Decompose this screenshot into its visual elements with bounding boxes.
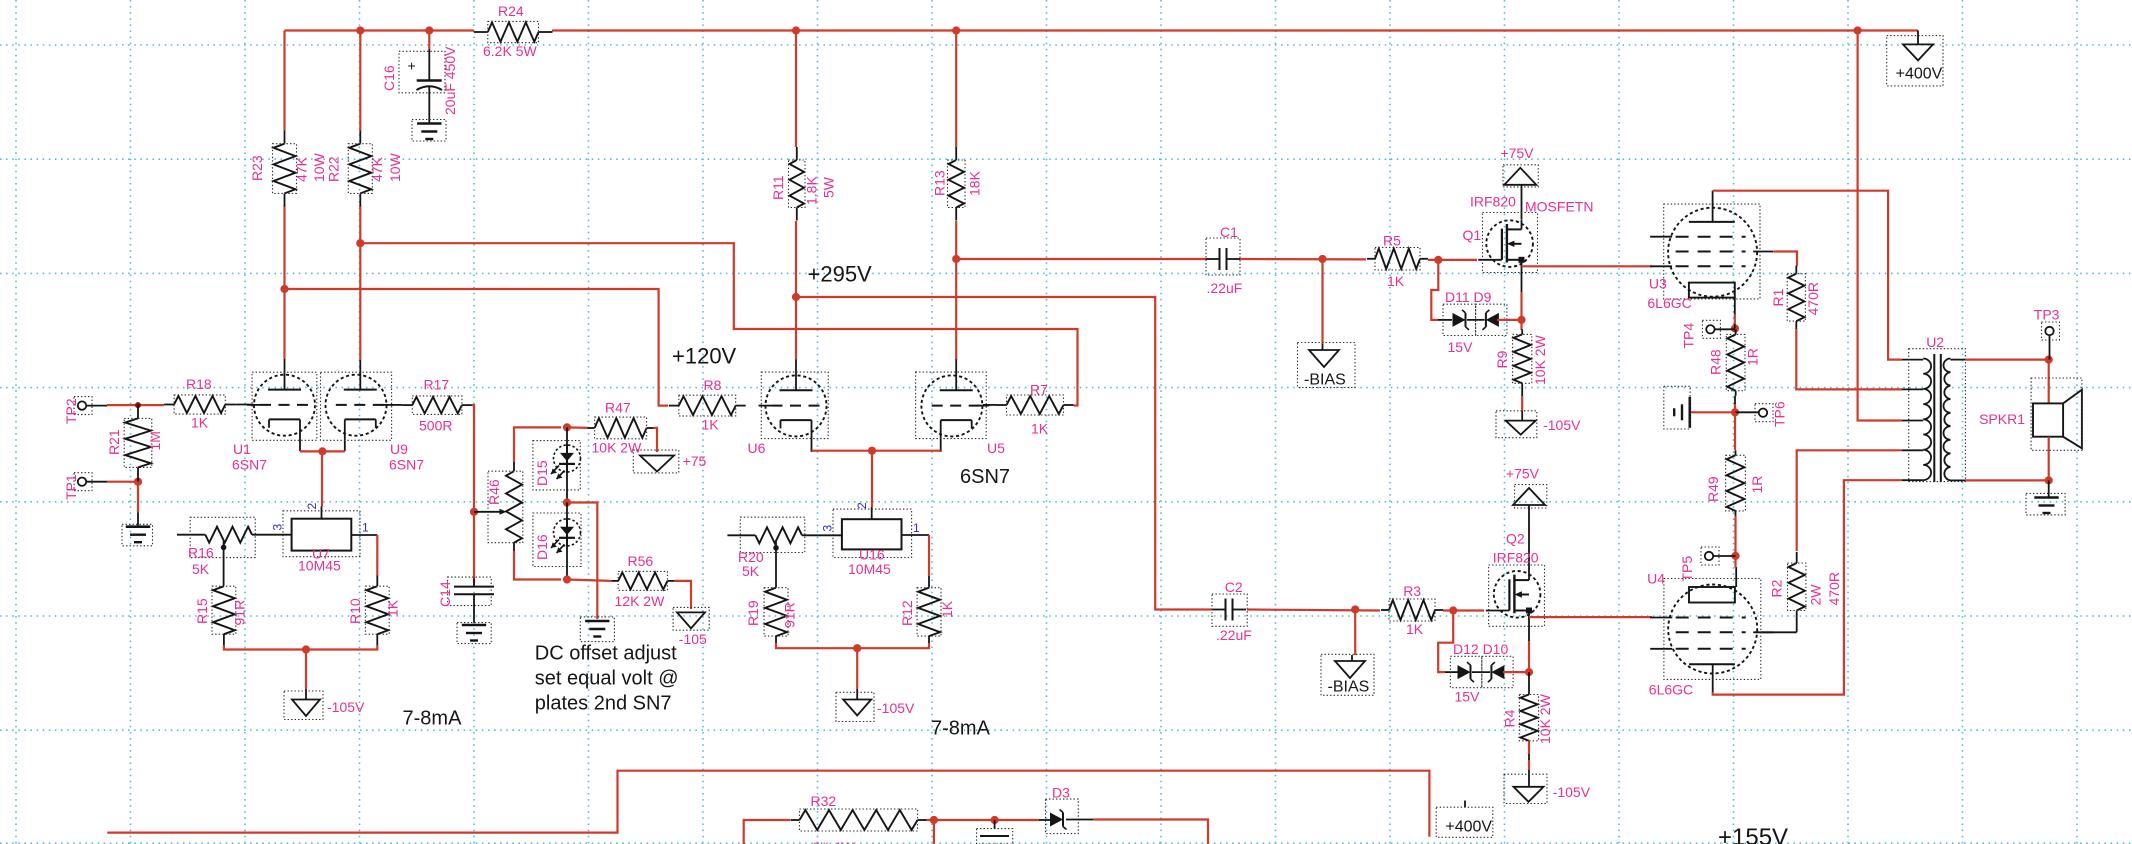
capacitor C16 (electrolytic) bbox=[428, 31, 430, 50]
svg-text:2W: 2W bbox=[1808, 584, 1824, 606]
junction D15/D16 midpoint bbox=[566, 472, 568, 503]
svg-text:TP4: TP4 bbox=[1681, 323, 1697, 349]
junction TP2/R21 bbox=[135, 402, 141, 408]
junction cathodes bbox=[318, 447, 326, 455]
capacitor C2 bbox=[1212, 609, 1226, 611]
resistor R17 bbox=[402, 404, 412, 406]
resistor R7 bbox=[997, 404, 1007, 406]
svg-text:-105: -105 bbox=[679, 631, 707, 647]
wire D10 to source node bbox=[1503, 671, 1529, 673]
resistor R19 bbox=[775, 587, 777, 589]
wire midpoint to ground bbox=[567, 503, 597, 620]
svg-text:R1: R1 bbox=[1770, 288, 1786, 306]
svg-text:R19: R19 bbox=[745, 600, 761, 626]
svg-text:R56: R56 bbox=[628, 553, 654, 569]
svg-text:MOSFETN: MOSFETN bbox=[1525, 199, 1593, 215]
power symbol -105V (below R9) bbox=[1506, 421, 1536, 435]
svg-text:U6: U6 bbox=[748, 440, 766, 456]
resistor R16 (with tap) bbox=[177, 534, 205, 536]
svg-text:.22uF: .22uF bbox=[1216, 627, 1252, 643]
resistor R3 bbox=[1381, 609, 1389, 611]
svg-text:R11: R11 bbox=[770, 175, 786, 200]
junction R16 tap bbox=[221, 545, 227, 551]
resistor R15 bbox=[223, 585, 225, 587]
resistor R13 bbox=[955, 147, 957, 160]
power symbol -105V (left) bbox=[292, 700, 320, 717]
svg-text:5W: 5W bbox=[821, 176, 837, 198]
svg-text:R2: R2 bbox=[1769, 579, 1785, 597]
power symbol +75 bbox=[640, 456, 674, 472]
resistor R12 bbox=[928, 587, 930, 589]
ground below R21 bbox=[126, 525, 150, 528]
svg-text:R47: R47 bbox=[605, 400, 631, 416]
capacitor at bottom (cut) bbox=[977, 829, 1013, 844]
wire node to R47 bbox=[567, 426, 588, 429]
svg-text:-105V: -105V bbox=[327, 699, 365, 715]
resistor R4 bbox=[1528, 694, 1530, 696]
wire R2 to U4 screen bbox=[1796, 622, 1798, 633]
terminal TP4 bbox=[1706, 325, 1714, 333]
transistor Q2 IRF820 mosfet bbox=[1494, 571, 1541, 618]
wire R3 to Q2 gate bbox=[1443, 609, 1484, 611]
svg-text:1M: 1M bbox=[147, 431, 163, 450]
svg-text:1.8K: 1.8K bbox=[804, 176, 820, 205]
svg-text:47K: 47K bbox=[294, 156, 310, 182]
junction cap tap bbox=[991, 816, 999, 824]
wire R16 tap to R15 bbox=[223, 541, 225, 586]
junction cathodes to U16 bbox=[868, 447, 876, 455]
svg-text:18K: 18K bbox=[967, 170, 983, 196]
svg-text:TP3: TP3 bbox=[2034, 307, 2060, 323]
wire gate zener drop bbox=[1431, 260, 1438, 320]
wire U3 plate to transformer bbox=[1713, 191, 1902, 360]
svg-text:R16: R16 bbox=[188, 545, 214, 561]
junction R11 top bbox=[792, 26, 800, 34]
svg-text:15V: 15V bbox=[1455, 689, 1481, 705]
svg-text:470R: 470R bbox=[1805, 282, 1821, 315]
svg-text:C1: C1 bbox=[1220, 224, 1238, 240]
svg-text:+120V: +120V bbox=[672, 344, 737, 369]
svg-text:6SN7: 6SN7 bbox=[232, 457, 267, 473]
wire R23 column / U1 plate bbox=[283, 31, 285, 132]
svg-text:R3: R3 bbox=[1403, 583, 1421, 599]
svg-text:R22: R22 bbox=[326, 156, 342, 182]
wire D3 to lower right bbox=[1093, 820, 1208, 844]
wire bus corner into +400V symbol bbox=[1917, 31, 1919, 45]
wire U5 grid to R7 bbox=[983, 404, 997, 406]
ground below C14 bbox=[462, 624, 486, 627]
wire Q2 source to U4 grid bbox=[1529, 616, 1652, 618]
svg-text:U2: U2 bbox=[1926, 334, 1944, 350]
svg-text:TP5: TP5 bbox=[1679, 556, 1695, 582]
junction U9 plate to U5 grid feed bbox=[356, 239, 364, 247]
junction C16 top bbox=[425, 26, 433, 34]
svg-text:91R: 91R bbox=[781, 602, 797, 628]
junction gate/zener bbox=[1434, 256, 1442, 264]
svg-text:5K: 5K bbox=[192, 561, 210, 577]
svg-text:12K 2W: 12K 2W bbox=[615, 593, 666, 609]
svg-text:+75: +75 bbox=[683, 453, 707, 469]
junction after R32 bbox=[930, 816, 938, 824]
svg-text:470R: 470R bbox=[1826, 572, 1842, 605]
wire U1/U9 cathodes join bbox=[300, 450, 345, 452]
svg-text:1: 1 bbox=[362, 521, 369, 535]
svg-text:TP1: TP1 bbox=[63, 474, 79, 500]
svg-text:D12 D10: D12 D10 bbox=[1453, 641, 1508, 657]
svg-text:-BIAS: -BIAS bbox=[1304, 372, 1346, 389]
wire R46 wiper bbox=[474, 511, 504, 513]
svg-text:47K: 47K bbox=[369, 156, 385, 182]
junction R20 tap bbox=[773, 545, 779, 551]
wire R18 to U1 grid bbox=[235, 404, 253, 406]
resistor R32 bbox=[791, 819, 800, 821]
junction Q1 source bbox=[1517, 316, 1525, 324]
wire bottom-left long run bbox=[107, 771, 1429, 837]
junction TP5 bbox=[1731, 552, 1739, 560]
svg-text:1K: 1K bbox=[1406, 621, 1424, 637]
junction D16 bottom node bbox=[566, 546, 568, 580]
svg-text:+: + bbox=[408, 58, 416, 74]
resistor R5 bbox=[1367, 258, 1375, 260]
wire R47 right to +75 symbol bbox=[654, 428, 657, 452]
svg-text:6L6GC: 6L6GC bbox=[1649, 682, 1693, 698]
LED D16 bbox=[566, 503, 568, 520]
wire node to R56 bbox=[567, 580, 611, 581]
svg-text:1R: 1R bbox=[1745, 348, 1761, 366]
power symbol -BIAS (lower) bbox=[1351, 655, 1353, 661]
resistor R18 bbox=[164, 404, 174, 406]
svg-text:R8: R8 bbox=[704, 377, 722, 393]
svg-text:1K: 1K bbox=[1031, 421, 1049, 437]
svg-text:+295V: +295V bbox=[808, 261, 873, 286]
svg-text:R23: R23 bbox=[249, 155, 265, 181]
wire R46 top to R47 node bbox=[513, 462, 515, 471]
svg-text:1K: 1K bbox=[939, 600, 955, 618]
resistor R56 bbox=[611, 580, 618, 582]
resistor R49 bbox=[1734, 412, 1736, 450]
wire R9 to -105V bbox=[1521, 388, 1523, 396]
wire R5 to Q1 gate bbox=[1428, 259, 1477, 261]
wire TP2 to R18 bbox=[107, 404, 164, 406]
junction TP1/R21 bbox=[134, 478, 142, 486]
svg-text:R49: R49 bbox=[1705, 476, 1721, 502]
wire secondary top to TP3/speaker bbox=[1965, 359, 2048, 361]
svg-text:D11 D9: D11 D9 bbox=[1445, 289, 1492, 305]
wire U6/U5 cathodes join bbox=[812, 450, 941, 452]
svg-text:-105V: -105V bbox=[1543, 417, 1581, 433]
resistor R10 bbox=[376, 585, 378, 587]
wire R46 bottom to D16 node bbox=[513, 543, 515, 551]
capacitor C14 bbox=[473, 578, 475, 586]
zener D12 bbox=[1445, 671, 1458, 673]
svg-text:2: 2 bbox=[305, 503, 319, 510]
svg-text:U3: U3 bbox=[1649, 276, 1667, 292]
wire R4 to -105V bbox=[1528, 741, 1530, 754]
wire R1 to transformer tap bbox=[1796, 329, 1902, 389]
svg-text:3: 3 bbox=[821, 525, 835, 532]
svg-text:C2: C2 bbox=[1225, 579, 1243, 595]
svg-text:IRF820: IRF820 bbox=[1493, 550, 1539, 566]
svg-text:C16: C16 bbox=[381, 65, 397, 91]
wire TP1 to R21 bottom bbox=[107, 481, 138, 483]
power symbol +75V (above Q1) bbox=[1504, 168, 1536, 185]
ground at C16 bbox=[417, 122, 441, 125]
tube U1 6SN7 (triode) bbox=[254, 375, 315, 436]
junction cathode/TP4 bbox=[1731, 324, 1739, 332]
zener D3 bbox=[1039, 819, 1050, 821]
svg-text:R12: R12 bbox=[899, 600, 915, 626]
svg-text:91R: 91R bbox=[232, 600, 248, 626]
zener D10 bbox=[1472, 671, 1490, 673]
ground at R48 (rotated earth) bbox=[1689, 397, 1692, 428]
junction -BIAS tap upper bbox=[1318, 255, 1326, 263]
wire gate zener drop Q2 bbox=[1438, 611, 1453, 673]
svg-text:TP2: TP2 bbox=[63, 398, 79, 424]
svg-text:10M45: 10M45 bbox=[848, 561, 891, 577]
svg-text:IRF820: IRF820 bbox=[1470, 194, 1516, 210]
junction R47/D15 node bbox=[563, 423, 571, 431]
svg-text:10K 2W: 10K 2W bbox=[592, 440, 643, 456]
wire R13 column bbox=[955, 31, 957, 148]
resistor R22 bbox=[359, 131, 361, 144]
wire R21 bottom to ground bbox=[137, 482, 139, 513]
wire R16 to U7 pin3 bbox=[252, 534, 292, 536]
svg-text:Q1: Q1 bbox=[1463, 227, 1482, 243]
svg-text:DC offset adjust: DC offset adjust bbox=[535, 643, 677, 665]
capacitor C1 bbox=[1206, 258, 1220, 260]
svg-text:D15: D15 bbox=[534, 460, 550, 486]
svg-text:-105V: -105V bbox=[1553, 784, 1591, 800]
svg-text:-105V: -105V bbox=[877, 700, 915, 716]
junction +400V drop bbox=[1854, 26, 1862, 34]
terminal TP5 bbox=[1705, 552, 1713, 560]
zener D11 bbox=[1438, 319, 1452, 321]
power symbol +75V (above Q2) bbox=[1513, 488, 1545, 505]
svg-text:R17: R17 bbox=[424, 377, 450, 393]
junction R46 tap bbox=[470, 508, 478, 516]
svg-text:1K: 1K bbox=[384, 599, 400, 617]
power symbol -105 bbox=[677, 612, 705, 628]
svg-text:1K: 1K bbox=[191, 415, 209, 431]
junction U6 plate node bbox=[792, 293, 800, 301]
wire U5 node to C1 bbox=[956, 258, 1206, 260]
svg-text:10M45: 10M45 bbox=[298, 558, 341, 574]
svg-text:7-8mA: 7-8mA bbox=[403, 708, 463, 730]
junction speaker bottom bbox=[2045, 476, 2053, 484]
power symbol -BIAS (upper) bbox=[1322, 344, 1324, 350]
svg-text:500R: 500R bbox=[419, 418, 452, 434]
junction U5 plate node / C1 bbox=[952, 255, 960, 263]
wire source node to R4 bbox=[1528, 672, 1530, 694]
wires R19/R12 bottoms to -105V bbox=[775, 636, 777, 643]
svg-text:plates 2nd SN7: plates 2nd SN7 bbox=[535, 693, 672, 715]
svg-text:+75V: +75V bbox=[1506, 466, 1540, 482]
wire D9 to source node bbox=[1497, 319, 1522, 321]
wire R56 to -105 symbol bbox=[674, 581, 691, 609]
svg-text:10K 2W: 10K 2W bbox=[1532, 334, 1548, 385]
svg-text:R10: R10 bbox=[347, 598, 363, 624]
junction R22 top bbox=[356, 26, 364, 34]
wire C2 to R3 bbox=[1247, 610, 1380, 611]
power symbol +400V (bottom) bbox=[1436, 807, 1493, 837]
wire R49 to U4 cathode with TP5 bbox=[1734, 516, 1736, 568]
ground below speaker bbox=[2048, 480, 2050, 497]
wire Q2 source down bbox=[1528, 618, 1530, 641]
svg-text:R18: R18 bbox=[186, 376, 212, 392]
wire U3 cathode node bbox=[1734, 315, 1736, 324]
LED D15 bbox=[566, 427, 568, 445]
junction U1 plate to U6 grid feed bbox=[280, 285, 288, 293]
svg-text:U5: U5 bbox=[987, 440, 1005, 456]
wire R22 column / U9 plate bbox=[359, 31, 361, 132]
current source U16 10M45 bbox=[871, 507, 873, 519]
svg-text:1K: 1K bbox=[702, 417, 720, 433]
svg-text:-BIAS: -BIAS bbox=[1328, 679, 1370, 696]
wire R11 column bbox=[795, 31, 797, 148]
wire U16 pin1 to R12 bbox=[902, 534, 930, 536]
svg-text:R46: R46 bbox=[486, 479, 502, 505]
svg-text:3: 3 bbox=[271, 524, 285, 531]
junction speaker top bbox=[2045, 356, 2053, 364]
svg-text:R5: R5 bbox=[1383, 233, 1401, 249]
terminal TP3 bbox=[2045, 327, 2053, 335]
svg-text:1: 1 bbox=[913, 521, 920, 535]
resistor R48 bbox=[1735, 329, 1737, 334]
svg-text:+155V: +155V bbox=[1718, 824, 1788, 844]
junction -BIAS tap lower bbox=[1351, 605, 1359, 613]
resistor R24 bbox=[474, 31, 488, 33]
terminal TP6 bbox=[1759, 409, 1767, 417]
svg-text:R7: R7 bbox=[1030, 382, 1048, 398]
terminal TP1 bbox=[78, 478, 86, 486]
wire Q1 source to U3 grid bbox=[1522, 265, 1653, 267]
wire U4 plate to transformer bbox=[1713, 480, 1902, 694]
junction -105V tap bbox=[302, 645, 310, 653]
svg-text:6K 4W: 6K 4W bbox=[812, 839, 855, 844]
junction Q2 source bbox=[1525, 668, 1533, 676]
svg-text:D16: D16 bbox=[534, 534, 550, 560]
resistor R23 bbox=[284, 131, 286, 144]
tube U4 6L6GC (pentode) bbox=[1668, 585, 1757, 674]
current source U7 10M45 bbox=[321, 507, 323, 519]
wire R17 right down to C14/R46 bbox=[472, 405, 474, 583]
junction gate/zener Q2 bbox=[1449, 606, 1457, 614]
svg-text:R9: R9 bbox=[1494, 350, 1510, 368]
svg-text:R13: R13 bbox=[932, 170, 948, 196]
wire U3 screen to R1 bbox=[1773, 252, 1797, 267]
wire R20 to U16 pin3 bbox=[802, 534, 842, 536]
wire to U16 pin 2 bbox=[871, 451, 873, 507]
svg-text:20uF 450V: 20uF 450V bbox=[442, 46, 458, 115]
svg-text:SPKR1: SPKR1 bbox=[1979, 411, 2025, 427]
resistor R2 bbox=[1796, 552, 1798, 563]
junction -105V tap right bbox=[853, 644, 861, 652]
svg-text:7-8mA: 7-8mA bbox=[931, 718, 991, 740]
svg-text:1R: 1R bbox=[1749, 476, 1765, 494]
svg-text:U1: U1 bbox=[233, 441, 251, 457]
svg-text:R15: R15 bbox=[194, 598, 210, 624]
resistor R1 bbox=[1795, 266, 1797, 274]
tube U3 6L6GC (pentode) bbox=[1668, 208, 1757, 297]
svg-text:set equal volt @: set equal volt @ bbox=[535, 668, 679, 690]
terminal TP2 bbox=[78, 401, 86, 409]
wire +400V to transformer CT bbox=[1858, 31, 1902, 421]
svg-text:15V: 15V bbox=[1448, 339, 1474, 355]
svg-text:R48: R48 bbox=[1708, 349, 1724, 375]
svg-text:5K: 5K bbox=[742, 563, 760, 579]
svg-text:10W: 10W bbox=[387, 152, 403, 182]
svg-text:2: 2 bbox=[855, 502, 869, 509]
wire source node to R9 bbox=[1520, 320, 1522, 330]
wire speaker bottom to secondary bbox=[2048, 437, 2050, 481]
wire U9 grid to R17 bbox=[391, 404, 403, 406]
transistor Q1 IRF820 mosfet bbox=[1486, 220, 1533, 267]
svg-text:R32: R32 bbox=[811, 793, 837, 809]
tube U9 6SN7 (triode) bbox=[326, 375, 387, 436]
svg-text:U4: U4 bbox=[1647, 571, 1665, 587]
svg-text:+75V: +75V bbox=[1500, 145, 1534, 161]
svg-text:6.2K 5W: 6.2K 5W bbox=[483, 43, 537, 59]
wire U1 plate node to R8 (U6 grid) bbox=[285, 289, 669, 406]
junction R13 top bbox=[952, 26, 960, 34]
resistor R11 bbox=[796, 147, 798, 160]
wire Q1 source down bbox=[1521, 268, 1523, 293]
speaker SPKR1 bbox=[2048, 360, 2050, 404]
power symbol -105V (right) bbox=[843, 700, 871, 716]
zener D9 bbox=[1467, 319, 1485, 321]
resistor R46 (with tap) bbox=[506, 471, 522, 543]
wire transformer tap to R2 bbox=[1797, 450, 1902, 551]
svg-text:R24: R24 bbox=[498, 3, 524, 19]
svg-text:6SN7: 6SN7 bbox=[960, 466, 1010, 488]
power symbol +400V top-right bbox=[1903, 44, 1933, 60]
wire bottom to R32 bbox=[744, 820, 790, 844]
wire U9 plate node to R7 (U5 grid) bbox=[360, 243, 1077, 405]
svg-text:C14: C14 bbox=[437, 581, 453, 607]
wire top +400V bus bbox=[285, 29, 475, 31]
svg-text:.22uF: .22uF bbox=[1207, 280, 1243, 296]
svg-text:+400V: +400V bbox=[1445, 819, 1492, 836]
resistor R9 bbox=[1521, 329, 1523, 334]
svg-text:6L6GC: 6L6GC bbox=[1647, 295, 1691, 311]
svg-text:R21: R21 bbox=[106, 429, 122, 455]
wire U6 node to C2 bbox=[796, 297, 1212, 610]
resistor R21 bbox=[137, 404, 139, 418]
resistor R47 bbox=[588, 427, 595, 429]
tube U5 6SN7 (triode) bbox=[921, 375, 982, 436]
svg-text:6SN7: 6SN7 bbox=[389, 457, 424, 473]
resistor R8 bbox=[669, 405, 679, 407]
svg-text:R4: R4 bbox=[1502, 709, 1518, 727]
power symbol -105V (below R4) bbox=[1514, 787, 1544, 802]
wire C1 to R5 bbox=[1240, 258, 1366, 261]
wire R15/R10 bottoms to -105V bbox=[223, 634, 225, 645]
svg-text:D3: D3 bbox=[1052, 785, 1070, 801]
svg-text:1K: 1K bbox=[1387, 273, 1405, 289]
svg-text:Q2: Q2 bbox=[1506, 531, 1525, 547]
svg-text:TP6: TP6 bbox=[1772, 401, 1788, 427]
junction R48 bottom / TP6 / ground bbox=[1734, 396, 1736, 404]
resistor R20 (with tap) bbox=[727, 534, 755, 536]
svg-text:U9: U9 bbox=[390, 441, 408, 457]
svg-text:+400V: +400V bbox=[1896, 66, 1943, 83]
svg-text:10K 2W: 10K 2W bbox=[1537, 693, 1553, 744]
tube U6 6SN7 (triode) bbox=[766, 375, 827, 436]
wire cathodes to U7 pin2 bbox=[321, 451, 323, 506]
wire U7 pin1 to R10 bbox=[351, 534, 377, 536]
